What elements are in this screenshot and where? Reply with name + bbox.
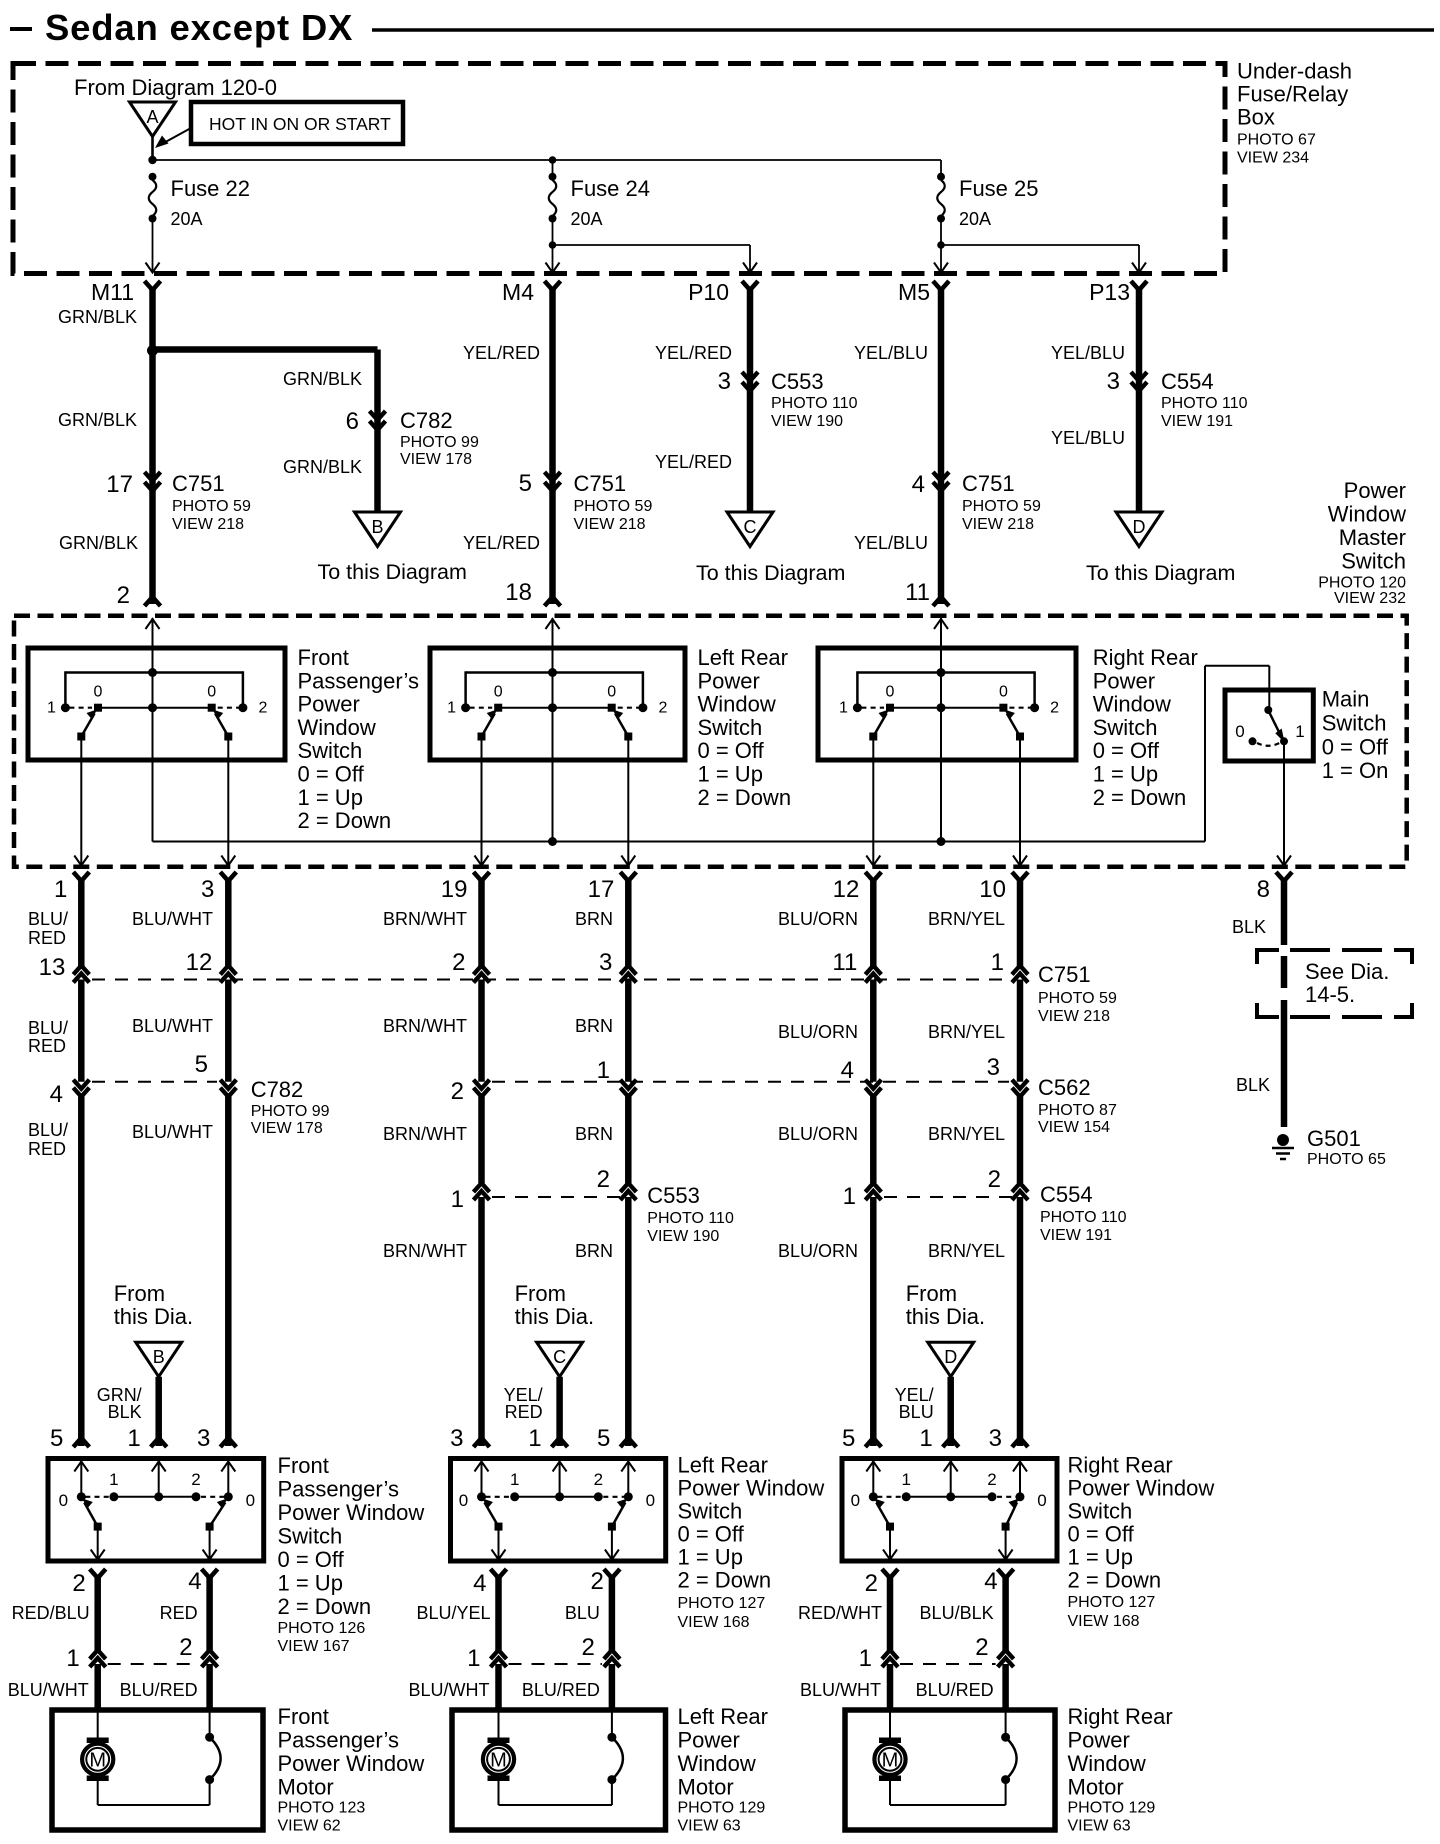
svg-text:Switch: Switch — [278, 1524, 343, 1549]
wire fuse24 to M4 — [552, 221, 554, 273]
wire M4 YEL/RED — [549, 288, 556, 604]
svg-text:BLK: BLK — [1236, 1075, 1270, 1095]
svg-text:1: 1 — [47, 700, 56, 717]
svg-text:1 = Up: 1 = Up — [298, 785, 363, 810]
svg-text:PHOTO 65: PHOTO 65 — [1307, 1151, 1386, 1168]
svg-text:1: 1 — [1295, 722, 1304, 741]
svg-text:Right Rear: Right Rear — [1068, 1704, 1173, 1729]
svg-text:C751: C751 — [1038, 962, 1091, 987]
wire from triangle D — [947, 1377, 954, 1446]
svg-text:Power Window: Power Window — [678, 1476, 825, 1501]
C751 row chevron pin 2 — [474, 966, 490, 975]
svg-text:Window: Window — [698, 692, 776, 717]
svg-text:BLU/RED: BLU/RED — [522, 1680, 600, 1700]
svg-text:Power: Power — [298, 692, 360, 717]
wire BRN/YEL col6 seg D — [1017, 1197, 1024, 1446]
svg-text:VIEW 63: VIEW 63 — [1068, 1818, 1131, 1835]
wire BRN/WHT col3 seg D — [478, 1197, 485, 1446]
svg-text:Power: Power — [698, 668, 760, 693]
svg-text:2: 2 — [72, 1570, 85, 1597]
svg-text:Switch: Switch — [1068, 1499, 1133, 1524]
svg-text:RED: RED — [505, 1402, 543, 1422]
svg-text:VIEW 62: VIEW 62 — [278, 1818, 341, 1835]
svg-text:Window: Window — [298, 715, 376, 740]
wire P10 YEL/RED — [747, 288, 754, 512]
svg-text:M11: M11 — [91, 279, 134, 305]
svg-text:Fuse 25: Fuse 25 — [959, 176, 1039, 201]
svg-text:1: 1 — [451, 1186, 464, 1213]
svg-text:PHOTO 87: PHOTO 87 — [1038, 1102, 1117, 1119]
svg-text:2: 2 — [452, 949, 465, 976]
svg-text:A: A — [146, 107, 158, 127]
svg-text:1: 1 — [991, 949, 1004, 976]
svg-text:VIEW 232: VIEW 232 — [1334, 590, 1406, 607]
svg-text:C: C — [553, 1347, 566, 1367]
svg-text:this Dia.: this Dia. — [114, 1304, 193, 1329]
svg-text:PHOTO 126: PHOTO 126 — [278, 1620, 366, 1637]
left rear power window switch entry lines — [481, 1461, 483, 1497]
svg-text:5: 5 — [50, 1425, 63, 1452]
wire fuse25 branch to P13 — [941, 244, 1139, 246]
C751 row chevron pin 13 — [73, 966, 89, 975]
fuse Fuse 22 — [149, 173, 157, 181]
right rear power window switch left arm — [876, 1503, 890, 1527]
svg-text:BLU/RED: BLU/RED — [120, 1680, 198, 1700]
front passenger power window switch (master) right arm — [215, 714, 228, 737]
svg-text:Power Window: Power Window — [1068, 1476, 1215, 1501]
svg-text:From Diagram 120-0: From Diagram 120-0 — [74, 75, 277, 100]
svg-text:C782: C782 — [400, 408, 453, 433]
left rear power window switch (master) box — [430, 648, 685, 760]
wire fuse22 to M11 — [152, 221, 154, 273]
arrow from hot box to wire — [160, 128, 191, 145]
svg-text:Right Rear: Right Rear — [1093, 645, 1198, 670]
svg-text:1 = Up: 1 = Up — [678, 1545, 743, 1570]
svg-text:BRN/WHT: BRN/WHT — [383, 1016, 467, 1036]
svg-text:PHOTO 127: PHOTO 127 — [678, 1595, 766, 1612]
svg-text:1: 1 — [66, 1645, 79, 1672]
svg-text:2 = Down: 2 = Down — [698, 785, 792, 810]
svg-text:1 = Up: 1 = Up — [1093, 762, 1158, 787]
svg-text:C554: C554 — [1040, 1182, 1093, 1207]
front passenger power window switch right arm — [210, 1503, 226, 1527]
svg-text:1: 1 — [901, 1470, 910, 1489]
svg-text:C553: C553 — [771, 369, 824, 394]
svg-text:YEL/RED: YEL/RED — [655, 452, 732, 472]
main switch box — [1225, 690, 1313, 761]
svg-text:2 = Down: 2 = Down — [1068, 1568, 1162, 1593]
svg-text:1: 1 — [467, 1645, 480, 1672]
svg-text:BLU/WHT: BLU/WHT — [132, 1122, 213, 1142]
motor connector row pins 1-2 — [108, 1663, 200, 1665]
svg-text:1: 1 — [859, 1645, 872, 1672]
node bus right rear — [937, 837, 946, 846]
svg-text:1: 1 — [54, 876, 67, 903]
svg-text:Power Window: Power Window — [278, 1751, 425, 1776]
svg-text:Left Rear: Left Rear — [698, 645, 789, 670]
svg-text:1: 1 — [447, 700, 456, 717]
wire BLU/RED col1 seg B — [78, 980, 85, 1082]
wire BRN/YEL col6 seg C — [1017, 1095, 1024, 1183]
svg-text:M4: M4 — [502, 279, 534, 305]
svg-text:2: 2 — [191, 1470, 200, 1489]
svg-text:PHOTO 127: PHOTO 127 — [1068, 1594, 1156, 1611]
svg-text:this Dia.: this Dia. — [906, 1304, 985, 1329]
right rear power window motor motor symbol M — [889, 1712, 891, 1738]
svg-text:BLU/ORN: BLU/ORN — [778, 1124, 858, 1144]
svg-text:M: M — [89, 1750, 106, 1772]
svg-text:2: 2 — [597, 1166, 610, 1193]
C751 row chevron pin 1 — [1012, 966, 1028, 975]
triangle C to this diagram — [727, 512, 773, 547]
front passenger power window switch left arm — [84, 1503, 97, 1527]
svg-text:1: 1 — [510, 1470, 519, 1489]
feed wire across fuses — [153, 159, 942, 161]
svg-text:Motor: Motor — [278, 1775, 334, 1800]
C751 row chevron pin 11 — [865, 966, 881, 975]
title rule — [372, 28, 1434, 32]
left rear power window switch (master) left arm — [482, 714, 495, 737]
wire BLU/ORN col5 seg D — [870, 1197, 877, 1446]
svg-text:Window: Window — [1328, 502, 1406, 527]
svg-text:2: 2 — [594, 1470, 603, 1489]
triangle A (from diagram 120-0) — [130, 102, 176, 137]
svg-text:GRN/BLK: GRN/BLK — [59, 533, 138, 553]
left rear power window motor arc contact — [607, 1775, 616, 1784]
svg-text:P10: P10 — [688, 279, 729, 305]
svg-text:RED: RED — [28, 1036, 66, 1056]
right rear power window motor box — [845, 1710, 1055, 1830]
wire fuse24 branch to P10 — [553, 244, 751, 246]
svg-text:BLU/: BLU/ — [28, 1018, 68, 1038]
node: M11 branch junction — [147, 345, 158, 356]
svg-text:BLU/WHT: BLU/WHT — [132, 909, 213, 929]
svg-text:0: 0 — [607, 684, 616, 701]
title dash — [10, 27, 32, 31]
svg-text:M: M — [882, 1750, 899, 1772]
wire BRN col4 seg B — [625, 980, 632, 1082]
svg-text:2: 2 — [258, 700, 267, 717]
svg-text:12: 12 — [186, 949, 213, 976]
svg-text:0 = Off: 0 = Off — [278, 1547, 345, 1572]
connector row C562 — [492, 1081, 1009, 1083]
svg-text:See Dia.: See Dia. — [1305, 959, 1389, 984]
svg-text:VIEW 168: VIEW 168 — [678, 1614, 750, 1631]
svg-text:BRN: BRN — [575, 1241, 613, 1261]
right rear power window motor arc contact — [1001, 1775, 1010, 1784]
front passenger power window switch (master) left arm — [81, 714, 94, 737]
svg-text:YEL/RED: YEL/RED — [655, 343, 732, 363]
svg-text:HOT IN ON OR START: HOT IN ON OR START — [209, 114, 391, 134]
svg-text:VIEW 178: VIEW 178 — [400, 451, 472, 468]
svg-text:BRN/YEL: BRN/YEL — [928, 1022, 1005, 1042]
left rear power window switch (master) contacts — [461, 703, 470, 712]
svg-text:3: 3 — [197, 1425, 210, 1452]
svg-text:Switch: Switch — [1322, 711, 1387, 736]
svg-text:4: 4 — [473, 1570, 486, 1597]
svg-text:PHOTO 59: PHOTO 59 — [1038, 990, 1117, 1007]
motor connector row pins 1-2 — [900, 1663, 996, 1665]
motor connector row pins 1-2 — [509, 1663, 602, 1665]
wire to fuse 25 — [940, 160, 942, 177]
svg-text:BLU/WHT: BLU/WHT — [800, 1680, 881, 1700]
svg-text:2: 2 — [658, 700, 667, 717]
svg-text:PHOTO 110: PHOTO 110 — [647, 1210, 734, 1227]
connector row C553 — [492, 1196, 620, 1198]
wire BRN col4 seg D — [625, 1197, 632, 1446]
svg-text:Sedan except DX: Sedan except DX — [45, 7, 353, 48]
node: feed junction A — [148, 156, 156, 164]
svg-text:M: M — [490, 1750, 507, 1772]
right rear power window switch (master) output wires — [872, 740, 874, 866]
C554 chevron pin 1 — [865, 1183, 881, 1192]
left rear power window motor internal wire — [498, 1780, 500, 1805]
right rear power window switch (master) entry wire — [940, 618, 942, 842]
svg-text:Main: Main — [1322, 687, 1370, 712]
right rear power window switch (master) left arm — [873, 714, 886, 737]
triangle C from this diagram — [537, 1342, 583, 1377]
svg-text:0: 0 — [459, 1491, 468, 1510]
svg-text:0: 0 — [1037, 1491, 1046, 1510]
svg-text:0 = Off: 0 = Off — [698, 738, 765, 763]
left rear power window switch left arm — [485, 1503, 499, 1527]
svg-text:RED: RED — [160, 1603, 198, 1623]
svg-text:VIEW 168: VIEW 168 — [1068, 1613, 1140, 1630]
svg-text:PHOTO 59: PHOTO 59 — [574, 498, 653, 515]
svg-text:BLU/RED: BLU/RED — [916, 1680, 994, 1700]
svg-text:BLU/WHT: BLU/WHT — [409, 1680, 490, 1700]
svg-text:Passenger’s: Passenger’s — [298, 668, 419, 693]
svg-text:VIEW 191: VIEW 191 — [1040, 1227, 1112, 1244]
svg-text:4: 4 — [841, 1057, 854, 1084]
svg-text:Master: Master — [1339, 525, 1406, 550]
svg-text:20A: 20A — [171, 209, 203, 229]
svg-text:Fuse 24: Fuse 24 — [571, 176, 651, 201]
svg-text:BRN: BRN — [575, 1016, 613, 1036]
svg-text:6: 6 — [346, 408, 359, 435]
svg-text:BLU/ORN: BLU/ORN — [778, 1022, 858, 1042]
svg-text:Motor: Motor — [678, 1775, 734, 1800]
svg-text:Power: Power — [1068, 1728, 1130, 1753]
svg-text:PHOTO 120: PHOTO 120 — [1318, 575, 1406, 592]
svg-text:0: 0 — [646, 1491, 655, 1510]
svg-text:BLU/WHT: BLU/WHT — [8, 1680, 89, 1700]
svg-text:BLU/WHT: BLU/WHT — [132, 1016, 213, 1036]
left rear power window switch (master) top bar — [466, 671, 643, 674]
svg-text:To this Diagram: To this Diagram — [318, 560, 467, 584]
wire BLU/ORN col5 seg A — [870, 879, 877, 966]
svg-text:Power Window: Power Window — [278, 1500, 425, 1525]
svg-text:BLK: BLK — [1232, 917, 1266, 937]
svg-text:BLU/ORN: BLU/ORN — [778, 1241, 858, 1261]
svg-text:4: 4 — [984, 1568, 997, 1595]
svg-text:1 = Up: 1 = Up — [1068, 1545, 1133, 1570]
svg-text:0 = Off: 0 = Off — [298, 762, 365, 787]
svg-text:1 = Up: 1 = Up — [278, 1571, 343, 1596]
svg-text:Front: Front — [298, 645, 349, 670]
svg-text:1: 1 — [597, 1057, 610, 1084]
svg-text:2: 2 — [451, 1078, 464, 1105]
svg-text:BRN/YEL: BRN/YEL — [928, 909, 1005, 929]
svg-text:Switch: Switch — [298, 738, 363, 763]
svg-text:Left Rear: Left Rear — [678, 1704, 769, 1729]
svg-text:3: 3 — [599, 949, 612, 976]
svg-text:2: 2 — [987, 1470, 996, 1489]
wire fuse25 to M5 — [940, 221, 942, 273]
svg-text:19: 19 — [441, 876, 468, 903]
wire BRN/YEL col6 seg A — [1017, 879, 1024, 966]
ground G501 — [1277, 1134, 1289, 1146]
svg-text:18: 18 — [505, 579, 532, 606]
svg-text:1 = Up: 1 = Up — [698, 762, 763, 787]
front passenger power window switch (master) top bar — [65, 671, 243, 674]
front passenger power window motor motor symbol M — [97, 1712, 99, 1738]
C782 chevron pin 5 — [220, 1080, 236, 1089]
bus wire to main switch — [153, 841, 1206, 843]
front passenger power window switch (master) box — [28, 648, 285, 760]
svg-text:14-5.: 14-5. — [1305, 982, 1355, 1007]
triangle D from this diagram — [928, 1342, 974, 1377]
svg-text:Box: Box — [1237, 105, 1275, 130]
svg-text:0: 0 — [207, 684, 216, 701]
svg-text:13: 13 — [39, 954, 66, 981]
svg-text:VIEW 190: VIEW 190 — [771, 413, 843, 430]
C553 chevron pin 1 — [474, 1183, 490, 1192]
wire BLU/WHT col2 seg C — [225, 1095, 232, 1446]
svg-text:Under-dash: Under-dash — [1237, 59, 1352, 84]
svg-text:GRN/BLK: GRN/BLK — [58, 307, 137, 327]
svg-text:BRN/WHT: BRN/WHT — [383, 909, 467, 929]
svg-text:PHOTO 59: PHOTO 59 — [962, 498, 1041, 515]
front passenger power window motor box — [52, 1710, 263, 1830]
svg-text:VIEW 218: VIEW 218 — [1038, 1008, 1110, 1025]
node bus left rear — [548, 837, 557, 846]
front passenger power window switch contacts — [77, 1492, 86, 1501]
svg-text:BRN: BRN — [575, 1124, 613, 1144]
wire BLU/WHT col2 seg A — [225, 879, 232, 966]
main switch arm — [1269, 711, 1280, 734]
svg-text:GRN/BLK: GRN/BLK — [58, 410, 137, 430]
svg-text:3: 3 — [718, 368, 731, 395]
wire P13 YEL/BLU — [1136, 288, 1143, 512]
svg-text:BLU/: BLU/ — [28, 1120, 68, 1140]
svg-text:3: 3 — [987, 1054, 1000, 1081]
svg-text:BRN/YEL: BRN/YEL — [928, 1124, 1005, 1144]
power window master switch box (dashed) — [14, 616, 1407, 867]
svg-text:11: 11 — [832, 949, 857, 976]
svg-text:1: 1 — [843, 1183, 856, 1210]
left rear power window switch box — [451, 1459, 666, 1562]
wire BLU/WHT to motor — [887, 1664, 894, 1710]
right rear power window switch contacts — [869, 1492, 878, 1501]
svg-text:11: 11 — [905, 579, 930, 606]
front passenger power window switch (master) contacts — [61, 703, 70, 712]
svg-text:this Dia.: this Dia. — [515, 1304, 594, 1329]
svg-text:0: 0 — [851, 1491, 860, 1510]
left rear power window switch (master) right arm — [615, 714, 628, 737]
wire BRN/YEL col6 seg B — [1017, 980, 1024, 1082]
svg-text:Window: Window — [1068, 1751, 1146, 1776]
svg-text:1: 1 — [127, 1425, 140, 1452]
svg-text:1: 1 — [839, 700, 848, 717]
svg-text:Passenger’s: Passenger’s — [278, 1477, 399, 1502]
svg-text:3: 3 — [1107, 368, 1120, 395]
left rear power window switch output wires — [498, 1530, 500, 1560]
right rear power window switch output wires — [889, 1530, 891, 1560]
svg-text:4: 4 — [188, 1568, 201, 1595]
svg-text:2: 2 — [988, 1166, 1001, 1193]
svg-text:C562: C562 — [1038, 1075, 1091, 1100]
svg-text:PHOTO 67: PHOTO 67 — [1237, 132, 1316, 149]
right rear power window switch (master) top bar — [857, 671, 1034, 674]
right rear power window switch right arm — [1006, 1503, 1017, 1527]
hot-in-on-or-start box — [191, 102, 403, 144]
wire BLU/ORN col5 seg B — [870, 980, 877, 1082]
svg-text:2: 2 — [582, 1634, 595, 1661]
svg-text:17: 17 — [588, 876, 615, 903]
wire BLU/RED col1 seg A — [78, 879, 85, 966]
C562 chevron pin 2 — [474, 1080, 490, 1089]
svg-text:0: 0 — [94, 684, 103, 701]
svg-text:0: 0 — [494, 684, 503, 701]
svg-text:20A: 20A — [571, 209, 603, 229]
wire BLU/RED to motor — [1002, 1664, 1009, 1710]
svg-text:BLU: BLU — [899, 1402, 934, 1422]
svg-text:1: 1 — [528, 1425, 541, 1452]
C751 row chevron pin 3 — [620, 966, 636, 975]
svg-text:B: B — [371, 517, 383, 537]
svg-text:0: 0 — [886, 684, 895, 701]
wire BLU/RED to motor — [609, 1664, 616, 1710]
svg-text:VIEW 154: VIEW 154 — [1038, 1119, 1110, 1136]
svg-text:BLU/BLK: BLU/BLK — [920, 1603, 994, 1623]
svg-text:PHOTO 129: PHOTO 129 — [1068, 1800, 1156, 1817]
svg-text:BLU/ORN: BLU/ORN — [778, 909, 858, 929]
left rear power window motor motor symbol M — [498, 1712, 500, 1738]
front passenger power window switch box — [48, 1459, 264, 1562]
svg-text:10: 10 — [979, 876, 1006, 903]
svg-text:C782: C782 — [251, 1077, 304, 1102]
right rear power window switch (master) right arm — [1007, 714, 1020, 737]
wire BRN col4 seg A — [625, 879, 632, 966]
svg-text:P13: P13 — [1089, 279, 1130, 305]
svg-text:RED: RED — [28, 1139, 66, 1159]
svg-text:VIEW 190: VIEW 190 — [647, 1228, 719, 1245]
C562 chevron pin 4 — [865, 1080, 881, 1089]
left rear power window switch contacts — [477, 1492, 486, 1501]
connector row C782 — [92, 1081, 217, 1083]
right rear power window switch box — [842, 1459, 1057, 1562]
svg-text:1 = On: 1 = On — [1322, 758, 1389, 783]
svg-text:VIEW 63: VIEW 63 — [678, 1818, 741, 1835]
svg-text:Power: Power — [678, 1728, 740, 1753]
svg-text:PHOTO 123: PHOTO 123 — [278, 1800, 366, 1817]
svg-text:0 = Off: 0 = Off — [678, 1522, 745, 1547]
svg-text:BRN/WHT: BRN/WHT — [383, 1241, 467, 1261]
wire BLU/WHT col2 seg B — [225, 980, 232, 1082]
svg-text:17: 17 — [106, 471, 133, 498]
main switch output wire pin 8 — [1283, 745, 1285, 866]
svg-text:C: C — [744, 517, 757, 537]
svg-text:VIEW 167: VIEW 167 — [278, 1638, 350, 1655]
svg-text:Motor: Motor — [1068, 1775, 1124, 1800]
svg-text:Power: Power — [1093, 668, 1155, 693]
svg-text:GRN/BLK: GRN/BLK — [283, 369, 362, 389]
svg-text:PHOTO 110: PHOTO 110 — [1040, 1209, 1127, 1226]
svg-text:2 = Down: 2 = Down — [298, 808, 392, 833]
front passenger power window switch (master) entry wire — [152, 618, 154, 842]
svg-text:RED/WHT: RED/WHT — [798, 1603, 882, 1623]
